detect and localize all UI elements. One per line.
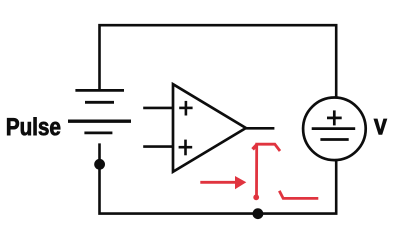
voltage source V1 polarity + bbox=[327, 110, 342, 125]
wire op-amp input top bbox=[143, 107, 173, 110]
node: bottom wire junction bbox=[253, 208, 264, 219]
node: battery bottom junction bbox=[94, 159, 105, 170]
wire op-amp input bottom bbox=[143, 145, 173, 148]
label V bbox=[374, 119, 386, 134]
wire: battery bottom to bottom rail to voltage source (left riser, bottom rail, right riser) bbox=[100, 143, 337, 213]
wire: battery top to top rail to voltage source (left riser, top rail, right riser) bbox=[100, 25, 337, 98]
wire op-amp output bbox=[246, 127, 275, 130]
op-amp U1 input + (top) bbox=[179, 101, 192, 116]
label Pulse bbox=[7, 117, 60, 135]
voltage source V1 plates bbox=[312, 129, 356, 140]
node: waveform origin dot (red) bbox=[253, 194, 259, 200]
op-amp U1 input + (bottom) bbox=[179, 140, 193, 156]
voltage source V1 bbox=[303, 98, 366, 161]
battery B1 (Pulse source) bbox=[68, 90, 131, 132]
op-amp U1 bbox=[173, 84, 246, 172]
waveform edge (red pulse transition) bbox=[253, 144, 280, 196]
annotation arrow (red) bbox=[200, 176, 246, 189]
waveform low level (red) bbox=[279, 191, 318, 199]
